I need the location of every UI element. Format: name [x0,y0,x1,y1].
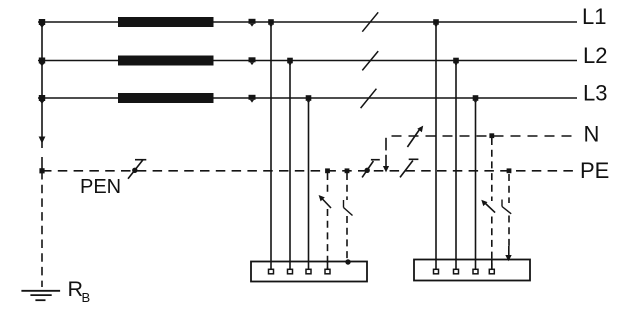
terminal 2.2 [454,269,459,274]
node L1 drop 1 [268,19,274,27]
switch on N drop board 1 [322,198,332,208]
ground electrode RB [21,291,60,300]
wire PEN/PE horizontal [42,170,577,172]
arrow tap L3 [249,95,256,103]
terminal 1.3 [306,269,311,274]
arrow PE into board 2 [505,255,511,261]
arrow on PEN vertical [39,137,46,144]
wire drop L2 to board 2 [455,61,457,270]
wire drop L2 to board 1 [289,61,291,270]
wire drop L3 to board 1 [308,98,310,270]
node L3 drop 1 [306,95,312,103]
transformer winding W3 (L3) [118,93,214,103]
wire drop N to board 1 [327,173,329,196]
disconnect link on PE (right) [400,159,418,177]
wire drop N to board 2 [491,138,493,201]
wire drop PE to board 2 [508,174,510,203]
wire drop L3 to board 2 [475,98,477,270]
break slash on L1 [362,12,378,31]
disconnect link on PE (left) [362,160,380,178]
node PEN junction [39,168,44,173]
distribution board 2 [414,260,530,281]
terminal 1.4 [325,269,330,274]
wire N branch vertical [385,138,387,151]
terminal 2.3 [473,269,478,274]
svg-text:L3: L3 [583,80,607,105]
node L1 drop 2 [433,19,439,27]
svg-text:L2: L2 [583,43,607,68]
switch on PE drop board 2 [501,200,503,207]
terminal 2.4 [489,269,494,274]
wire L2 [38,60,577,62]
break slash on L2 [362,51,378,70]
switch on PE drop board 1 [343,200,345,208]
wire L1 [38,21,577,23]
svg-text:L1: L1 [582,4,606,29]
wire drop L1 to board 1 [270,22,272,270]
svg-text:PEN: PEN [80,176,121,198]
terminal 2.1 [434,269,439,274]
wire N horizontal [392,135,578,137]
arrow tap L2 [249,57,256,65]
node L3 drop 2 [473,95,479,103]
wire L3 [38,97,577,99]
terminal 1.2 [288,269,293,274]
node L2 drop 2 [453,58,459,66]
svg-text:PE: PE [580,158,609,183]
wire drop PE to board 1 [346,173,348,200]
svg-text:N: N [584,122,600,147]
arrow link on N [407,126,423,147]
node PE tap board 1 [345,259,350,264]
node L2 drop 1 [287,58,293,66]
switch on N drop board 2 [486,204,496,213]
distribution board 1 [251,262,367,282]
svg-text:B: B [82,290,91,305]
node L1 left [39,19,45,28]
node N tap board 1 [325,168,330,173]
disconnect link on PEN [128,160,146,179]
arrow tap L1 [249,19,256,27]
wire PEN vertical (star point) [41,22,43,148]
break slash on L3 [361,89,377,108]
transformer winding W2 (L2) [118,56,214,66]
node L3 left [39,95,45,104]
arrow N branch onto PEN [383,166,389,172]
node L2 left [39,58,45,67]
node PE tap board 2 [507,168,512,173]
node N tap board 2 [489,133,494,138]
node PE tap board 1 top [345,168,350,173]
transformer winding W1 (L1) [118,17,214,27]
terminal 1.1 [269,269,274,274]
wire drop L1 to board 2 [435,22,437,270]
